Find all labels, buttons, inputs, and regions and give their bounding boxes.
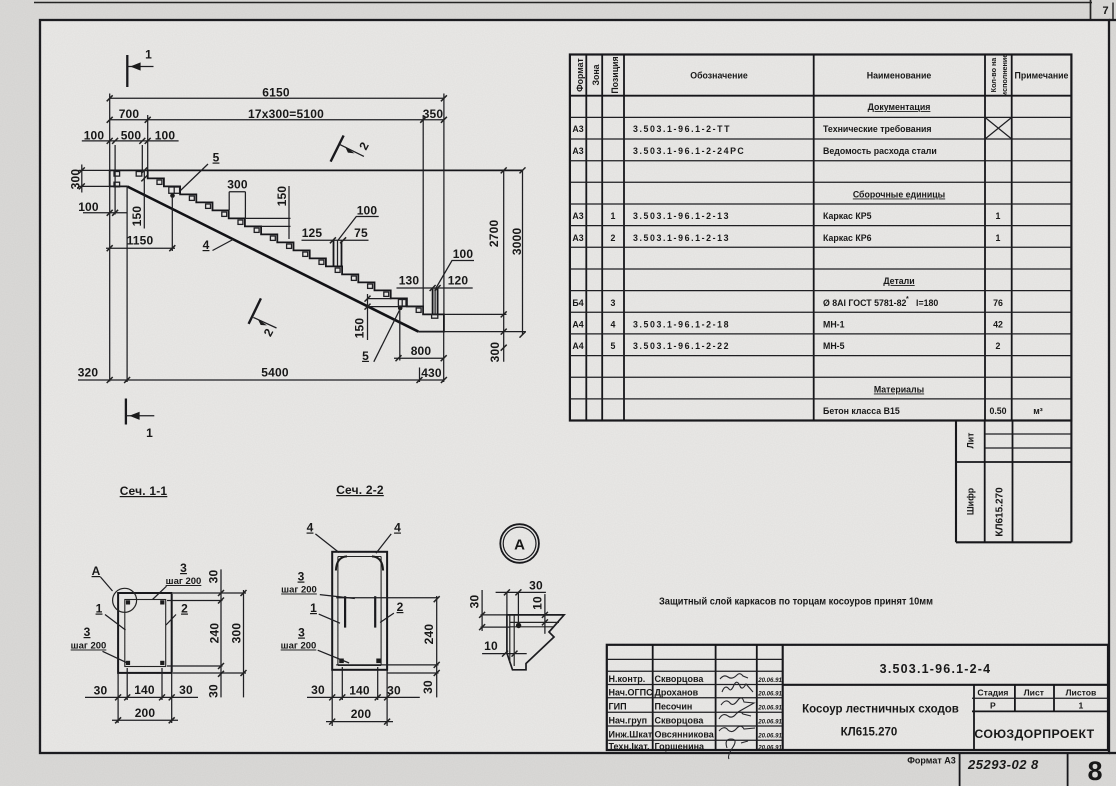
dim 6150: extension left: [109, 94, 111, 382]
label А: leader: [101, 577, 113, 591]
MN-5 mark bottom: weld circle: [398, 306, 403, 311]
section 1-1 outer concrete: [118, 593, 172, 673]
detail A dim 30 top: extensions: [506, 592, 508, 615]
MN-5 mark top: plate: [169, 187, 180, 193]
bottom landing plate: [432, 315, 438, 319]
dim 800: extensions: [399, 310, 401, 360]
step embedded plates: [114, 172, 438, 319]
dates column: [757, 677, 782, 751]
divider line: [1067, 753, 1069, 786]
title block left rows: [607, 658, 783, 660]
title block left verticals: [652, 645, 654, 750]
s22 dim 30/140/30: line: [307, 696, 420, 698]
table column lines: [585, 55, 587, 421]
s11 bottom dim extensions: [117, 673, 119, 700]
label 4 right: leader: [376, 534, 391, 553]
section mark 1 bottom: tail: [126, 415, 154, 417]
dim row2: line: [110, 119, 444, 121]
s11 dim line 30/240/30: [220, 569, 222, 697]
label 5 top: leader: [181, 164, 209, 191]
dim 3000: line: [522, 170, 524, 334]
lit block right edge: [1070, 421, 1072, 543]
detail A concrete corner fragment: [507, 615, 564, 670]
label 2: leader: [166, 615, 176, 626]
extension left diag tip: [126, 186, 128, 382]
frame top extension to right edge: [1109, 19, 1116, 21]
detail A dim 10 bottom: line: [482, 653, 527, 655]
dim 1150: line: [106, 247, 175, 249]
bar 4 hooks top corners: [336, 556, 347, 570]
table outer border: [570, 55, 1072, 421]
section mark 1 bottom: blade: [125, 399, 127, 425]
divider line: [959, 753, 961, 786]
detail A bar dot: [516, 623, 521, 628]
lit/shifr separator: [956, 461, 1071, 463]
stage table verticals: [973, 685, 975, 750]
dim 300 tread: extensions: [228, 192, 230, 210]
label 1: leader: [105, 615, 126, 631]
signatures column squiggles: [719, 674, 755, 759]
dim 150 vertical left: line: [143, 170, 145, 228]
left dim 300: line: [81, 165, 83, 193]
s11 dim 200: line: [112, 719, 178, 721]
extension bottom right: [418, 331, 526, 333]
s11 dim 300: line: [243, 590, 245, 697]
section mark 1 top: blade: [126, 55, 128, 87]
dim row3 extensions: [114, 145, 116, 215]
label 4 left: leader: [315, 534, 339, 553]
detail A dim 30 left: extensions: [481, 614, 507, 616]
s22 dim 200: line: [326, 721, 393, 723]
s11 bottom extensions: [167, 665, 223, 667]
dim 300 tread: line: [229, 191, 245, 193]
page number 7 box tick: [1090, 0, 1092, 20]
bottom dim line 320/5400/430: [78, 379, 444, 381]
MN-5 mark bottom: plate: [398, 300, 406, 307]
stage table rows: [972, 697, 1108, 699]
label 3 upper: leader: [153, 586, 167, 599]
dim 2700: line: [503, 170, 505, 361]
dim 150 bottom: tread15 extension: [368, 298, 392, 300]
detail A circle on corner: [113, 588, 137, 612]
stringer left landing edge: [110, 170, 127, 186]
dim row3: line: [82, 140, 179, 142]
lit block left edge: [955, 421, 957, 543]
s11 dim 30 top: extensions: [173, 592, 246, 594]
section 1-1 stirrup: [125, 600, 166, 667]
label 3 upper s22: leader: [320, 595, 355, 599]
section mark 2 upper: tail: [340, 145, 364, 157]
dim 150 right: line: [288, 186, 290, 239]
detail A stirrup horizontal pair: [510, 621, 559, 623]
section mark 1 top: arrow: [130, 62, 140, 70]
label 3 lower: leader: [103, 651, 127, 662]
detail A dim 30 top: line: [496, 591, 546, 593]
label 4: leader: [213, 240, 234, 251]
landing plates: [114, 172, 120, 177]
section mark 2 lower: arrow: [258, 319, 267, 326]
X cross in qty cell: [985, 117, 1012, 139]
dim 430: extension: [419, 368, 421, 383]
detail A dim 30 left: line: [481, 590, 483, 631]
dim 1150: extension: [171, 198, 173, 251]
section 2-2 stirrup top/bottom: [338, 556, 381, 558]
table row lines: [570, 116, 1072, 118]
bar 1 cut: [344, 596, 346, 627]
left dim 300: extensions: [79, 169, 110, 171]
title block outer: [607, 645, 1108, 750]
lit inner vertical 2: [1012, 421, 1014, 543]
section 2-2 outer concrete: [332, 552, 387, 670]
page number 7 box right edge: [1112, 3, 1114, 21]
karkas element bottom: bars: [432, 288, 434, 314]
section mark 1 top: tail: [127, 66, 153, 68]
section 1-1 corner bars: [126, 600, 164, 665]
extension landing right: [444, 313, 507, 315]
section mark 2 lower: blade: [249, 298, 261, 324]
label 3 lower s22: leader: [318, 650, 349, 663]
detail A bubble: outer circle: [500, 524, 539, 563]
section mark 2 lower: tail: [253, 317, 276, 328]
dim row2 extensions: [147, 115, 149, 170]
s22 bottom dim extensions: [331, 670, 333, 700]
frame bottom extension to right edge: [1109, 752, 1116, 754]
label 5 bottom: leader: [374, 310, 400, 362]
label 1 s22: leader: [319, 614, 340, 623]
s22 dim 240: line: [436, 596, 438, 697]
dim 150 right: tread extensions: [245, 217, 291, 219]
section mark 2 upper: blade: [331, 136, 344, 162]
leader 100 mid: line: [338, 217, 379, 241]
dim 125/75: line: [302, 239, 369, 241]
lit row lines: [985, 433, 1072, 435]
s22 dim 240: extensions: [336, 597, 438, 599]
dim 6150: line: [110, 97, 444, 99]
section mark 2 upper: arrow: [345, 146, 355, 153]
leader 100 bottom: line: [436, 261, 474, 289]
MN-5 mark top: weld circle: [170, 193, 175, 198]
lit block bottom: [956, 541, 1071, 543]
bottom step extension line: [368, 306, 418, 308]
stringer profile steps: [148, 170, 444, 331]
s11 dim 30/140/30: line: [85, 696, 198, 698]
detail A stirrup vertical pair: [509, 616, 511, 664]
karkas element mid: bars: [333, 240, 335, 266]
dim 800: line: [394, 357, 444, 359]
s11 dim 200: extensions: [117, 700, 119, 723]
dim 130/120: line: [397, 287, 473, 289]
dim 6150: extension right: [443, 94, 445, 315]
detail A dim 10 right: line: [544, 594, 546, 634]
s22 bottom extension: [387, 672, 438, 674]
floor top line: [109, 169, 523, 171]
title block heavy divider: [783, 684, 1108, 686]
s22 dim 200: extensions: [331, 700, 333, 726]
bar 2 cut: [374, 596, 376, 627]
section 2-2 stirrup verticals: [337, 557, 339, 666]
stringer bottom diagonal: [127, 186, 418, 331]
detail A bubble: inner circle: [503, 527, 536, 560]
left dim 100: line: [83, 212, 127, 214]
top scan edge line: [34, 2, 1092, 4]
dim 150 bottom: line: [367, 294, 369, 340]
label 2 s22: leader: [380, 613, 394, 622]
bottom corner bars: [339, 659, 381, 664]
section mark 1 bottom: arrow: [129, 412, 139, 420]
table header bottom line: [570, 95, 1072, 97]
lit inner vertical 1: [984, 421, 986, 543]
